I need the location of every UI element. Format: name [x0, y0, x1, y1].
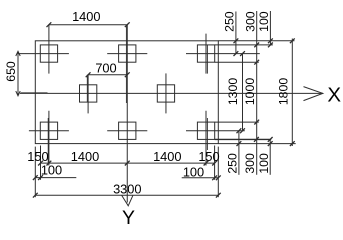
dimension 1300 right: dim line: [242, 54, 244, 131]
svg-text:X: X: [327, 83, 341, 106]
svg-text:1000: 1000: [243, 78, 257, 106]
svg-text:100: 100: [257, 153, 271, 174]
bottom tier2 dim line left (100) with ticks: [33, 175, 76, 180]
dimension 250 bottom-right: dim line: [238, 131, 240, 175]
svg-text:100: 100: [41, 162, 62, 177]
dimension 250 top-right: dim line: [235, 12, 237, 54]
X axis: [20, 87, 323, 101]
svg-text:250: 250: [226, 153, 240, 174]
pile P2 (top-center): [107, 25, 147, 203]
bottom tier2 dim line right (100) with ticks: [182, 175, 221, 180]
svg-text:1400: 1400: [72, 9, 100, 24]
pile P6 (bottom-left): [29, 111, 69, 166]
dimension 700: dim line and ticks: [86, 72, 130, 77]
dimension 300 top-right + 1000 + 300 bottom-right: shared dim line: [256, 11, 258, 175]
dimension 100 bottom-right: dim line: [269, 139, 271, 174]
bottom tier1 dim line (150,1400,1400,150) with ticks: [38, 161, 217, 166]
pile P5 (middle-center): [157, 73, 174, 113]
bottom witness line: cap right edge: [217, 147, 219, 198]
svg-text:Y: Y: [122, 207, 135, 224]
bottom witness line: pile left edge: [40, 146, 42, 180]
svg-text:150: 150: [198, 149, 219, 164]
svg-text:3300: 3300: [113, 182, 141, 197]
svg-text:700: 700: [95, 60, 116, 75]
svg-text:300: 300: [243, 11, 257, 32]
row3 centerline right ticks: [237, 128, 245, 133]
dimension 1800 right: dim line: [291, 39, 293, 147]
cap bottom edge extension with ticks: [218, 141, 295, 146]
bottom tier3 dim line (3300) with ticks: [33, 193, 221, 198]
Y axis arrowhead: [122, 195, 133, 205]
pile P7 (bottom-center): [107, 122, 147, 139]
svg-text:100: 100: [183, 164, 204, 179]
bottom witness line: cap left edge: [34, 147, 36, 198]
svg-text:1400: 1400: [153, 149, 181, 164]
pile P3 (top-right): [186, 34, 260, 74]
dimension 650 left: dim line with arrows: [16, 51, 20, 96]
pile P4 (middle-left): [80, 75, 97, 114]
pile P3 bottom edge extension: [215, 60, 259, 65]
pile P8 top edge extension: [215, 120, 259, 125]
svg-text:250: 250: [223, 11, 237, 32]
dimension 1400 top: dim line and ticks: [47, 22, 130, 27]
bottom witness line: pile right edge: [214, 146, 216, 180]
pile P8 (bottom-right): [186, 111, 245, 166]
svg-text:100: 100: [257, 11, 271, 32]
pile cap outline: [35, 41, 218, 144]
pile P3 top edge extension: [215, 43, 273, 48]
svg-text:1400: 1400: [71, 149, 99, 164]
pile P1 (top-left): [18, 25, 69, 74]
pile P8 bottom edge extension: [215, 137, 273, 142]
svg-text:300: 300: [243, 153, 257, 174]
svg-text:650: 650: [4, 61, 18, 82]
dimension 100 top-right: dim line: [269, 11, 271, 45]
cap top edge extension with ticks: [218, 38, 294, 43]
row1 centerline right ticks: [234, 51, 245, 56]
svg-text:1300: 1300: [226, 78, 240, 106]
svg-text:1800: 1800: [277, 78, 291, 106]
